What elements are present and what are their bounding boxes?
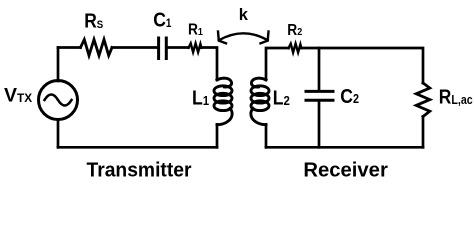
svg-text:C1: C1 <box>153 10 171 33</box>
svg-text:R1: R1 <box>188 20 203 38</box>
wire top-left vertical (source top lead) <box>57 48 60 82</box>
coupling arrow k <box>218 32 269 44</box>
svg-text:VTX: VTX <box>4 84 32 106</box>
svg-text:RL,ac: RL,ac <box>439 86 473 109</box>
wire transmitter bottom <box>58 146 217 149</box>
capacitor C1 <box>159 38 167 59</box>
svg-text:L1: L1 <box>192 87 209 109</box>
wire R2 to top-right corner and down to RL <box>301 48 423 83</box>
svg-text:R2: R2 <box>287 21 302 39</box>
wire source bottom lead <box>57 120 60 148</box>
wire L1 bottom lead <box>216 125 219 148</box>
wire C2 top stem <box>318 48 321 91</box>
wire L2 top lead to R2 <box>266 48 289 80</box>
resistor RL,ac <box>416 83 430 117</box>
wire C1 to R1 <box>168 46 189 49</box>
svg-text:C2: C2 <box>340 86 359 109</box>
inductor L1 <box>214 78 232 124</box>
wire R1 to L1 top <box>201 48 217 81</box>
wire RL bottom lead <box>422 117 425 148</box>
resistor Rs <box>81 40 113 56</box>
svg-text:RS: RS <box>84 10 103 33</box>
svg-text:k: k <box>239 6 249 24</box>
inductor L2 <box>251 78 269 124</box>
capacitor C2 <box>306 91 333 100</box>
resistor R1 <box>189 43 202 52</box>
wire C2 bottom stem <box>318 101 321 148</box>
voltage source V_TX <box>39 81 78 120</box>
wire receiver bottom <box>266 146 423 149</box>
svg-text:Transmitter: Transmitter <box>87 158 192 181</box>
wire Rs to C1 <box>112 46 157 49</box>
svg-text:L2: L2 <box>273 87 290 109</box>
wire top-left horizontal to Rs <box>58 46 81 49</box>
svg-text:Receiver: Receiver <box>303 158 388 181</box>
resistor R2 <box>289 44 302 53</box>
wire L2 bottom lead <box>265 125 268 148</box>
